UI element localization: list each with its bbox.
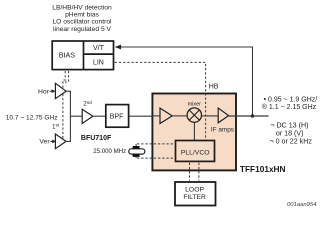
amplifier 1st Ver — [55, 134, 66, 149]
mixer — [187, 108, 201, 122]
svg-text:® 1.1 ~ 2.15 GHz: ® 1.1 ~ 2.15 GHz — [262, 103, 317, 111]
svg-text:BFU710F: BFU710F — [81, 135, 112, 142]
svg-text:LIN: LIN — [93, 60, 104, 67]
label: output frequency — [262, 97, 317, 111]
svg-text:BIAS: BIAS — [59, 51, 76, 60]
svg-text:Hor: Hor — [38, 89, 50, 96]
svg-text:pHemt bias: pHemt bias — [65, 12, 99, 19]
svg-text:IF amps: IF amps — [211, 127, 234, 134]
amplifier IF amps — [218, 108, 228, 123]
amplifier internal RF — [160, 108, 172, 123]
junction output/V-T — [251, 114, 254, 117]
svg-text:HB: HB — [209, 84, 219, 91]
wire mixer to IF amps — [202, 115, 219, 117]
svg-text:¬ 0 or 22 kHz: ¬ 0 or 22 kHz — [270, 138, 313, 146]
wire mixer LO — [193, 122, 195, 140]
svg-text:FILTER: FILTER — [183, 194, 206, 201]
wire pHEMT bias (dashed) — [63, 71, 69, 140]
crystal X1 25 MHz — [129, 146, 145, 157]
wire Hor/Ver combine — [66, 91, 82, 141]
block PLL/VCO — [176, 141, 215, 162]
svg-text:PLL/VCO: PLL/VCO — [181, 149, 210, 156]
svg-text:LO oscillator control: LO oscillator control — [52, 19, 112, 26]
label: control functions — [52, 5, 112, 33]
svg-text:V/T: V/T — [93, 45, 105, 52]
svg-text:¬ DC 13 (H): ¬ DC 13 (H) — [270, 121, 308, 129]
wire amp to mixer — [172, 115, 187, 117]
svg-text:LB/HB/HV detection: LB/HB/HV detection — [52, 5, 112, 12]
svg-text:001aan954: 001aan954 — [287, 202, 317, 208]
wire LIN to HB control (dashed) — [115, 62, 206, 140]
block V/T — [84, 41, 105, 70]
block LOOP FILTER — [175, 182, 216, 206]
wire RF in to 1st internal amp — [152, 115, 160, 117]
svg-text:mixer: mixer — [188, 102, 202, 108]
IC TFF101xHN outline — [152, 94, 236, 171]
block LIN — [84, 54, 113, 67]
arrowhead into V/T — [115, 45, 121, 50]
node Ver input — [39, 139, 56, 146]
svg-text:10.7 ~ 12.75 GHz: 10.7 ~ 12.75 GHz — [6, 114, 58, 121]
svg-text:LOOP: LOOP — [185, 187, 204, 194]
svg-text:Ver: Ver — [39, 139, 50, 146]
svg-text:TFF101xHN: TFF101xHN — [240, 164, 286, 174]
wire IF output — [229, 115, 269, 117]
wire BPF to TFF101 — [129, 115, 152, 117]
filter BPF — [106, 105, 129, 128]
wire 2nd amp to BPF — [93, 115, 105, 117]
amplifier 1st Hor — [55, 83, 66, 98]
block BIAS — [52, 41, 113, 70]
svg-text:linear regulated 5 V: linear regulated 5 V — [53, 26, 112, 33]
label: DC and tone — [270, 121, 313, 145]
amplifier 2nd — [82, 109, 93, 123]
svg-text:BPF: BPF — [110, 114, 124, 121]
node Hor input — [38, 89, 56, 96]
wire V/T voltage-tone sense — [120, 47, 253, 116]
wire PLL to loop filter (dashed) — [190, 163, 199, 181]
svg-text:• 0.95 ~ 1.9 GHz/: • 0.95 ~ 1.9 GHz/ — [264, 97, 318, 104]
svg-text:or 18 (V): or 18 (V) — [276, 130, 304, 138]
wire crystal to PLL/VCO (dashed) — [136, 144, 174, 158]
svg-text:25.000 MHz: 25.000 MHz — [93, 148, 126, 155]
